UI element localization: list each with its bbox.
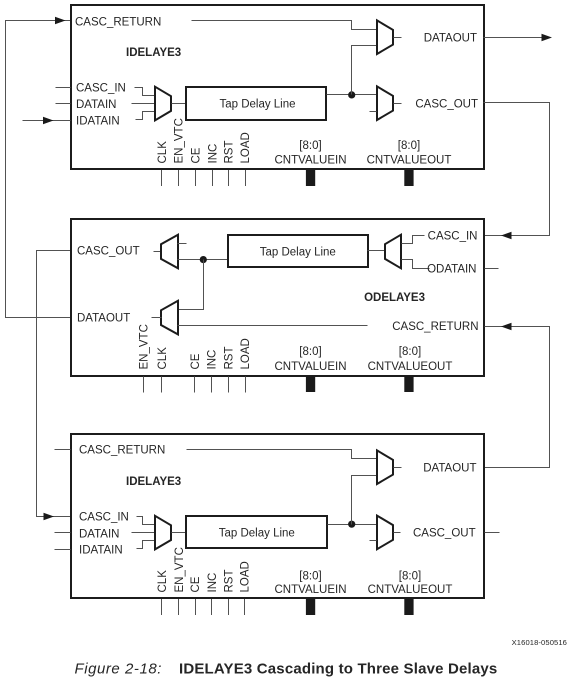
- svg-text:IDELAYE3 Cascading to Three Sl: IDELAYE3 Cascading to Three Slave Delays: [179, 661, 497, 678]
- pin stub EN_VTC (U2): [143, 377, 145, 393]
- svg-text:X16018-050516: X16018-050516: [512, 638, 567, 647]
- pin stub RST (U2): [228, 377, 230, 393]
- svg-text:CE: CE: [191, 147, 203, 163]
- wire mux to tap delay line: [172, 103, 187, 105]
- wire CASC_OUT to middle CASC_IN (right cascade): [484, 103, 550, 236]
- svg-text:IDATAIN: IDATAIN: [79, 545, 123, 557]
- wire CASC_RETURN to DATAOUT mux top input: [187, 450, 377, 459]
- wire node up to DATAOUT mux bottom input: [352, 476, 377, 525]
- svg-text:IDELAYE3: IDELAYE3: [126, 476, 181, 488]
- svg-text:Tap Delay Line: Tap Delay Line: [260, 247, 336, 259]
- box Tap Delay Line: [186, 87, 326, 120]
- svg-text:RST: RST: [224, 347, 236, 370]
- pin DATAIN stub: [56, 103, 71, 105]
- svg-text:CASC_OUT: CASC_OUT: [415, 98, 478, 110]
- svg-text:CASC_OUT: CASC_OUT: [77, 246, 140, 258]
- wire node up to DATAOUT mux bottom input: [352, 46, 377, 95]
- svg-text:RST: RST: [223, 570, 235, 593]
- svg-text:[8:0]: [8:0]: [399, 346, 421, 358]
- pin stub EN_VTC (U1): [178, 170, 180, 186]
- wire DATAIN to input mux: [132, 103, 155, 105]
- pin stub CLK (U1): [161, 170, 163, 186]
- svg-text:CE: CE: [190, 576, 202, 592]
- svg-text:Tap Delay Line: Tap Delay Line: [219, 98, 295, 110]
- mux input (3:1) bottom block: [155, 516, 171, 550]
- svg-text:LOAD: LOAD: [240, 132, 252, 163]
- wire hook IDATAIN to input mux: [136, 112, 155, 120]
- mux DATAOUT bottom block: [377, 450, 393, 484]
- wire hook CASC_IN to input mux: [137, 517, 155, 525]
- node junction dot: [348, 91, 355, 98]
- svg-text:[8:0]: [8:0]: [398, 140, 420, 152]
- svg-text:ODELAYE3: ODELAYE3: [364, 292, 425, 304]
- svg-text:CNTVALUEOUT: CNTVALUEOUT: [368, 584, 453, 596]
- svg-text:[8:0]: [8:0]: [399, 571, 421, 583]
- pin stub CE (U2): [194, 377, 196, 393]
- arrowhead into middle CASC_RETURN: [501, 323, 512, 331]
- wire tap output to CASC_OUT mux: [328, 524, 377, 526]
- svg-text:IDELAYE3: IDELAYE3: [126, 47, 181, 59]
- svg-text:LOAD: LOAD: [240, 338, 252, 369]
- pin stub LOAD (U2): [245, 377, 247, 393]
- wire left return vertical (middle DATAOUT to top CASC_RETURN): [6, 21, 71, 318]
- wire DATAIN to input mux: [132, 532, 155, 534]
- arrowhead into top CASC_RETURN: [55, 17, 66, 25]
- mux CASC_OUT middle (left facing): [161, 235, 178, 269]
- wire CASC_OUT external stub: [485, 532, 500, 534]
- pin stub INC (U1): [212, 170, 214, 186]
- box Tap Delay Line middle: [228, 235, 368, 267]
- svg-text:RST: RST: [224, 141, 236, 164]
- pin stub CE (U3): [195, 599, 197, 615]
- box Tap Delay Line bottom: [186, 516, 327, 548]
- pin stub INC (U2): [211, 377, 213, 393]
- svg-text:CASC_RETURN: CASC_RETURN: [75, 16, 161, 28]
- svg-text:Figure 2-18:: Figure 2-18:: [75, 661, 162, 678]
- wire hook CASC_IN to input mux: [402, 236, 425, 244]
- mux DATAOUT top block: [377, 20, 393, 54]
- pin stub RST (U1): [228, 170, 230, 186]
- svg-text:EN_VTC: EN_VTC: [138, 324, 150, 369]
- svg-text:[8:0]: [8:0]: [299, 346, 321, 358]
- block U2 ODELAYE3 outline: [71, 219, 484, 376]
- wire CASC_OUT mux top stub input: [178, 243, 187, 245]
- pin stub CLK (U2): [161, 377, 163, 393]
- wire middle CASC_OUT to bottom CASC_IN (left cascade): [37, 251, 71, 517]
- wire CASC_OUT mux output stub: [394, 532, 401, 534]
- svg-text:[8:0]: [8:0]: [299, 140, 321, 152]
- svg-text:CLK: CLK: [157, 347, 169, 370]
- block U1 IDELAYE3 outline: [71, 5, 484, 169]
- pin stub EN_VTC (U3): [178, 599, 180, 615]
- wire CASC_OUT text to mux: [154, 251, 162, 253]
- wire DATAOUT mux output stub: [394, 37, 402, 39]
- svg-text:EN_VTC: EN_VTC: [174, 547, 186, 592]
- svg-text:CNTVALUEIN: CNTVALUEIN: [275, 584, 347, 596]
- node junction dot middle: [200, 256, 207, 263]
- pin stub LOAD (U1): [245, 170, 247, 186]
- wire CASC_RETURN to mux top input: [192, 21, 377, 30]
- mux input middle (left facing): [385, 235, 401, 269]
- svg-text:DATAOUT: DATAOUT: [423, 463, 476, 475]
- wire DATAOUT mux output stub: [394, 467, 402, 469]
- svg-text:CASC_OUT: CASC_OUT: [413, 528, 476, 540]
- pin IDATAIN arrow input: [23, 120, 71, 122]
- svg-text:DATAOUT: DATAOUT: [77, 313, 130, 325]
- svg-text:CASC_RETURN: CASC_RETURN: [392, 321, 478, 333]
- mux CASC_OUT top block: [377, 86, 393, 120]
- arrowhead into bottom CASC_IN: [44, 513, 55, 521]
- pin DATAIN stub: [55, 532, 71, 534]
- svg-text:CASC_IN: CASC_IN: [79, 512, 129, 524]
- svg-text:INC: INC: [207, 144, 219, 164]
- wire node down to DATAOUT mux top input: [178, 260, 204, 310]
- node junction dot bottom: [348, 521, 355, 528]
- pin IDATAIN stub: [55, 549, 71, 551]
- pin stub CE (U1): [195, 170, 197, 186]
- svg-text:CASC_RETURN: CASC_RETURN: [79, 444, 165, 456]
- pin CASC_RETURN stub and text: [55, 449, 71, 451]
- mux DATAOUT middle (left facing): [161, 301, 178, 335]
- svg-text:CASC_IN: CASC_IN: [76, 82, 126, 94]
- svg-text:CE: CE: [190, 353, 202, 369]
- svg-text:CNTVALUEOUT: CNTVALUEOUT: [368, 361, 453, 373]
- block U3 IDELAYE3 outline: [71, 434, 484, 598]
- svg-text:CLK: CLK: [157, 570, 169, 593]
- svg-text:DATAOUT: DATAOUT: [424, 33, 477, 45]
- svg-text:CASC_IN: CASC_IN: [428, 231, 478, 243]
- svg-text:Tap Delay Line: Tap Delay Line: [219, 527, 295, 539]
- wire mux to tap delay line: [172, 532, 187, 534]
- svg-text:EN_VTC: EN_VTC: [174, 118, 186, 163]
- wire CASC_OUT mux output stub: [394, 103, 402, 105]
- wire CASC_OUT mux bottom stub input: [370, 111, 377, 113]
- svg-text:CNTVALUEIN: CNTVALUEIN: [275, 155, 347, 167]
- wire hook CASC_IN to input mux: [135, 88, 155, 96]
- pin CASC_IN stub: [56, 87, 71, 89]
- svg-text:CLK: CLK: [157, 141, 169, 164]
- svg-text:INC: INC: [207, 573, 219, 593]
- wire CASC_OUT mux bottom stub input: [370, 540, 377, 542]
- wire CASC_RETURN line to DATAOUT mux bottom input: [178, 325, 368, 327]
- svg-text:CNTVALUEIN: CNTVALUEIN: [275, 361, 347, 373]
- wire DATAOUT external arrow: [484, 37, 545, 39]
- mux input (3:1) top block: [155, 87, 171, 121]
- svg-text:CNTVALUEOUT: CNTVALUEOUT: [367, 155, 452, 167]
- pin stub LOAD (U3): [244, 599, 246, 615]
- pin stub CLK (U3): [161, 599, 163, 615]
- mux CASC_OUT bottom block: [377, 516, 393, 550]
- svg-text:DATAIN: DATAIN: [76, 99, 116, 111]
- wire tap output to CASC_OUT mux: [327, 94, 377, 96]
- wire tap output to CASC_OUT mux bottom input: [178, 259, 228, 261]
- wire hook IDATAIN to input mux: [137, 541, 155, 549]
- svg-text:INC: INC: [207, 350, 219, 370]
- wire bottom DATAOUT to middle CASC_RETURN (right): [485, 327, 550, 468]
- wire ODATAIN external stub: [485, 268, 499, 270]
- svg-text:LOAD: LOAD: [240, 561, 252, 592]
- wire DATAOUT mux output to text: [152, 317, 162, 319]
- arrowhead into middle CASC_IN: [501, 232, 512, 240]
- svg-text:IDATAIN: IDATAIN: [76, 115, 120, 127]
- wire hook ODATAIN to input mux: [402, 260, 430, 269]
- svg-text:DATAIN: DATAIN: [79, 528, 119, 540]
- pin stub INC (U3): [211, 599, 213, 615]
- wire input mux output to tap box: [368, 250, 385, 252]
- svg-text:[8:0]: [8:0]: [299, 571, 321, 583]
- svg-text:ODATAIN: ODATAIN: [427, 263, 476, 275]
- pin stub RST (U3): [228, 599, 230, 615]
